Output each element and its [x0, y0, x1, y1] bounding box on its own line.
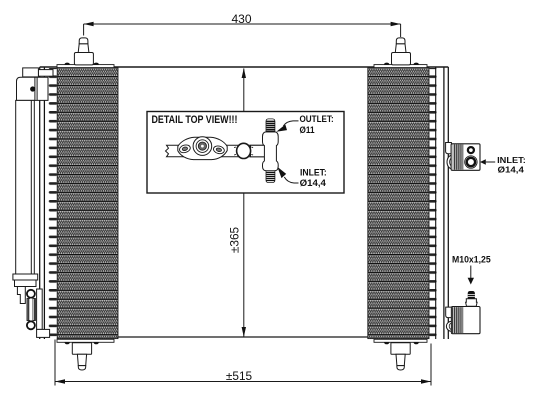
top plate left	[57, 65, 114, 68]
bottom mounting pin right	[391, 343, 410, 370]
M10 fitting bulge	[446, 321, 457, 331]
detail: bracket plate	[178, 137, 227, 159]
drier bracket bolt	[30, 86, 35, 91]
inlet fitting block	[451, 144, 480, 171]
svg-text:Ø14,4: Ø14,4	[300, 178, 326, 188]
detail: inlet stud (bottom, threaded)	[266, 171, 275, 183]
bottom plate right	[374, 339, 427, 342]
detail: bracket right oval pad	[213, 145, 225, 155]
detail: outlet leader arrow	[283, 121, 298, 126]
detail: inlet leader arrow	[284, 177, 298, 183]
dimension ±365 line	[243, 69, 245, 337]
svg-text:OUTLET:: OUTLET:	[300, 114, 334, 124]
inlet fitting hatch	[453, 144, 464, 169]
top mounting pin left	[74, 38, 93, 65]
svg-text:M10x1,25: M10x1,25	[452, 254, 491, 265]
M10 threaded stud	[468, 291, 475, 299]
detail: bracket left oval pad	[179, 144, 192, 154]
svg-text:±365: ±365	[228, 226, 242, 253]
dimension ±365 arrowheads	[242, 68, 246, 337]
bottom plate right weld bumps	[384, 342, 419, 344]
svg-text:±515: ±515	[226, 369, 253, 383]
right tube-end plate line	[435, 67, 437, 339]
bottom mounting pin left	[72, 343, 91, 370]
detail: pipe to fitting	[251, 145, 265, 157]
dimension ±515 line	[55, 340, 431, 386]
M10 leader arrow	[470, 266, 472, 279]
receiver drier body	[16, 100, 35, 274]
top plate left weld bumps	[65, 63, 99, 65]
bottom plate left weld bumps	[65, 342, 99, 344]
right fin/tube pack	[368, 68, 429, 339]
core top edge line	[40, 66, 449, 68]
detail: fitting body	[263, 132, 279, 171]
drier bottom flange	[13, 274, 38, 287]
drier lower step	[17, 287, 25, 304]
detail: central boss	[193, 137, 212, 156]
top plate right weld bumps	[384, 63, 419, 65]
inlet port	[465, 156, 477, 168]
left side-channel rails	[40, 67, 45, 339]
dimension 430 arrowheads	[84, 22, 401, 26]
detail: left pipe with break	[166, 145, 265, 157]
svg-text:Ø14,4: Ø14,4	[498, 164, 525, 174]
detail: outlet stud (top, threaded)	[266, 119, 275, 132]
top mounting pin right	[392, 38, 411, 65]
svg-text:430: 430	[231, 12, 251, 26]
drier side plate	[37, 289, 43, 329]
svg-text:INLET:: INLET:	[300, 168, 327, 178]
dimension ±515 arrowheads	[55, 379, 431, 383]
inlet fitting bolt hole	[468, 147, 474, 153]
svg-text:INLET:: INLET:	[497, 155, 526, 165]
receiver drier bracket	[17, 77, 49, 100]
left fin/tube pack	[57, 68, 118, 339]
sight glass top circle	[27, 290, 35, 298]
right side-channel rails	[444, 67, 448, 339]
inlet fitting tab	[446, 143, 452, 154]
sight glass channel	[30, 299, 33, 321]
dimension 430 line	[84, 24, 401, 37]
inlet arrow	[480, 159, 486, 165]
detail box	[147, 112, 344, 194]
sight glass bottom circle	[27, 321, 35, 329]
left tube ends	[49, 68, 58, 339]
receiver drier top pipe	[23, 68, 53, 77]
bottom plate left	[57, 339, 114, 342]
sight glass hatched body	[27, 299, 35, 321]
svg-text:DETAIL TOP VIEW!!!: DETAIL TOP VIEW!!!	[152, 114, 238, 126]
core bottom edge line (middle)	[112, 336, 372, 338]
M10 fitting tab	[446, 307, 452, 318]
M10 nut	[466, 299, 478, 307]
drier foot	[37, 329, 50, 337]
M10 fitting hatch	[452, 307, 463, 333]
top plate right	[374, 65, 427, 68]
right tube ends	[429, 68, 437, 339]
detail: clamp ring	[237, 143, 251, 158]
inlet fitting bulge	[447, 155, 457, 169]
svg-text:Ø11: Ø11	[300, 125, 315, 135]
M10 fitting block	[451, 307, 480, 334]
